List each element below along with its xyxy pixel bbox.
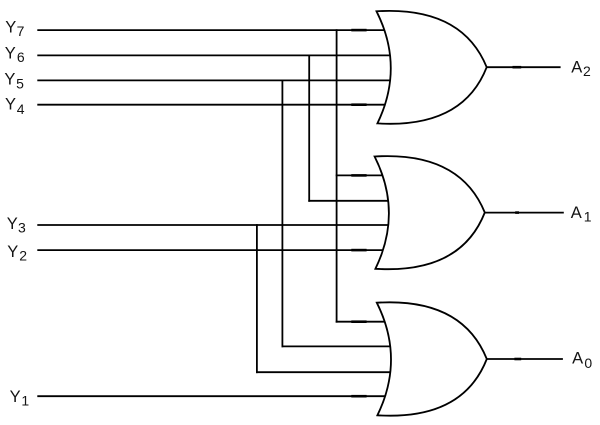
svg-text:2: 2: [19, 247, 27, 263]
svg-text:1: 1: [21, 392, 29, 408]
svg-text:3: 3: [18, 220, 26, 236]
svg-text:A: A: [572, 350, 583, 368]
node Y7 input label: [5, 19, 24, 40]
svg-text:7: 7: [17, 23, 25, 39]
wire Y6 vertical drop at x=309.2: [308, 55, 310, 200]
node Y3 input label: [7, 215, 26, 236]
wire Y6 branch to OR gate U2 input 2: [309, 200, 393, 202]
node Y1 input label: [10, 388, 30, 408]
wire Y2 horizontal to OR gate U2 input 4: [37, 249, 394, 251]
svg-text:Y: Y: [7, 243, 18, 261]
svg-text:4: 4: [17, 101, 25, 117]
svg-text:Y: Y: [5, 19, 16, 37]
pin stub U3 pin 1: [351, 320, 366, 323]
svg-text:2: 2: [583, 63, 591, 79]
svg-text:Y: Y: [5, 45, 16, 63]
wire Y7 branch to OR gate U3 input 1: [337, 321, 394, 323]
wire Y5 vertical drop at x=282.4: [281, 80, 283, 346]
pin stub U1 pin 1: [351, 29, 366, 32]
wire Y7 vertical drop at x=336.6: [336, 30, 338, 322]
node A0 output label: [572, 350, 592, 371]
pin stub U3 output: [514, 358, 521, 361]
svg-text:Y: Y: [4, 71, 15, 89]
svg-text:5: 5: [16, 76, 24, 92]
pin stub U1 output: [513, 66, 522, 69]
wire output A0: [487, 358, 563, 360]
pin stub U3 pin 4: [351, 395, 366, 398]
svg-text:A: A: [571, 204, 582, 222]
pin stub U2 output: [515, 211, 519, 214]
node Y2 input label: [7, 243, 27, 263]
wire Y5 branch to OR gate U3 input 2: [282, 345, 394, 347]
wire Y3 horizontal to OR gate U2 input 3: [37, 224, 394, 226]
svg-text:6: 6: [17, 49, 25, 65]
wire Y3 branch to OR gate U3 input 3: [257, 371, 394, 373]
svg-text:Y: Y: [10, 388, 21, 406]
OR gate U1 (inputs Y7 Y6 Y5 Y4, output A2): [377, 11, 487, 124]
svg-text:A: A: [571, 58, 582, 76]
pin stub U2 pin 1: [351, 174, 366, 177]
wire Y1 horizontal to OR gate U3 input 4: [37, 395, 394, 397]
svg-text:0: 0: [584, 355, 592, 371]
svg-text:Y: Y: [5, 96, 16, 114]
svg-text:1: 1: [584, 209, 592, 225]
node Y6 input label: [5, 45, 25, 66]
wire Y7 horizontal to OR gate U1 input 1: [37, 29, 394, 31]
wire Y5 horizontal to OR gate U1 input 3: [37, 79, 394, 81]
node Y4 input label: [5, 96, 25, 117]
node A1 output label: [571, 204, 592, 225]
pin stub U2 pin 4: [351, 249, 366, 252]
node A2 output label: [571, 58, 591, 79]
svg-text:Y: Y: [7, 215, 18, 233]
wire Y6 horizontal to OR gate U1 input 2: [37, 54, 394, 56]
node Y5 input label: [4, 71, 24, 92]
OR gate U3 (inputs Y7 Y5 Y3 Y1, output A0): [377, 302, 487, 415]
wire Y4 horizontal to OR gate U1 input 4: [37, 104, 394, 106]
wire Y7 branch to OR gate U2 input 1: [337, 174, 393, 176]
wire output A2: [487, 66, 561, 68]
OR gate U2 (inputs Y7 Y6 Y3 Y2, output A1): [375, 156, 485, 269]
pin stub U1 pin 4: [351, 103, 366, 106]
wire output A1: [485, 212, 564, 214]
wire Y3 vertical drop at x=256.9: [256, 225, 258, 372]
